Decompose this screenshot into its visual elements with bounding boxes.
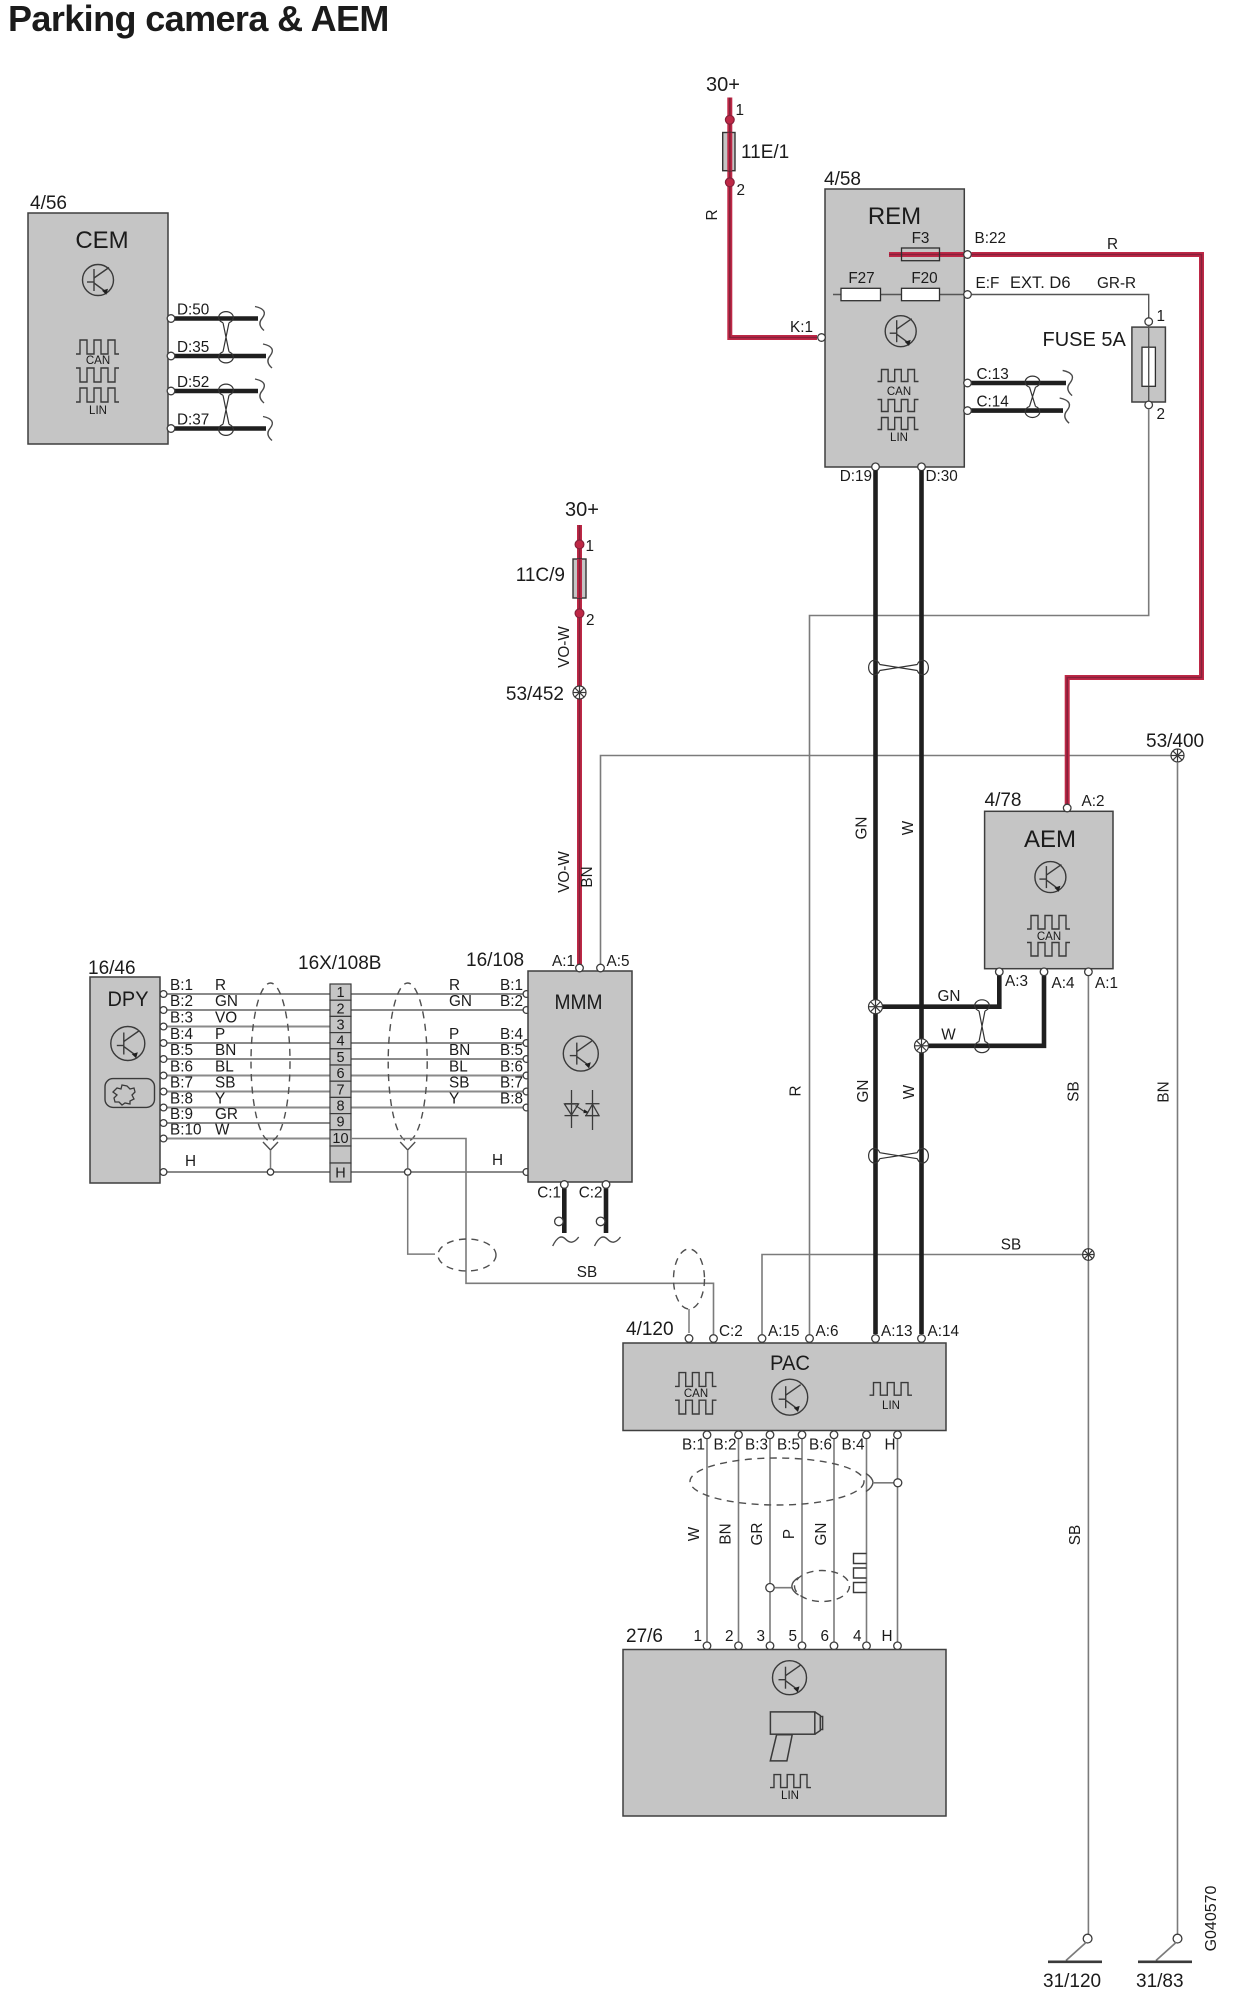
module REM 4/58 box [824, 169, 964, 467]
fuse F3 [902, 230, 940, 261]
wire W branch to AEM A:4 [922, 972, 1045, 1046]
PAC pin B:3 wire to camera pin 3 [745, 1431, 774, 1650]
svg-text:3: 3 [756, 1628, 765, 1645]
PAC pin B:2 wire to camera pin 2 [714, 1431, 743, 1650]
wire SB from PAC A:15 to SB junction [762, 1255, 1082, 1335]
svg-text:CAN: CAN [684, 1388, 708, 1400]
REM internal wire + fuse F3 feeding B:22 [889, 252, 966, 257]
wire BN from MMM A:5 to splice 53/400 [601, 756, 1172, 966]
svg-text:27/6: 27/6 [626, 1626, 663, 1647]
pulse signal symbol on wire 4 [854, 1554, 867, 1593]
wire SB from AEM A:1 to ground 31/120 [1087, 976, 1089, 1934]
twisted pair D:50/D:35 [219, 312, 234, 363]
svg-text:B:8: B:8 [170, 1091, 193, 1108]
DPY pin B:8 wire Y [160, 1091, 330, 1111]
DPY pin B:4 wire P [160, 1026, 330, 1046]
REM pin D:30 [918, 463, 926, 471]
shield (screen) DPY-16X/108B [251, 983, 290, 1175]
REM pin C:14 wire [964, 394, 1070, 424]
svg-text:4/120: 4/120 [626, 1319, 674, 1340]
CEM pin D:50 wire [167, 302, 264, 331]
PAC shield pin [685, 1335, 693, 1343]
svg-text:16/46: 16/46 [88, 958, 136, 979]
junction W [915, 1039, 929, 1053]
svg-text:B:6: B:6 [809, 1437, 832, 1454]
wire R from FUSE 5A to PAC A:6 [810, 409, 1149, 1334]
svg-text:AEM: AEM [1024, 826, 1076, 853]
svg-text:30+: 30+ [565, 499, 599, 521]
svg-text:GN: GN [938, 988, 961, 1005]
DPY pin B:7 wire SB [160, 1075, 330, 1095]
wire GR-R from E:F to FUSE 5A [972, 295, 1149, 319]
svg-text:GN: GN [854, 817, 871, 840]
svg-text:FUSE 5A: FUSE 5A [1043, 329, 1127, 351]
svg-text:BN: BN [1156, 1081, 1173, 1102]
svg-text:2: 2 [737, 182, 746, 199]
svg-text:16/108: 16/108 [466, 950, 524, 971]
svg-text:B:2: B:2 [500, 993, 523, 1010]
module PAC 4/120 box [623, 1319, 946, 1431]
wire SB to MMM B:7 [351, 1075, 530, 1095]
svg-text:5: 5 [788, 1628, 797, 1645]
svg-text:Y: Y [215, 1091, 225, 1108]
svg-text:G040570: G040570 [1203, 1885, 1220, 1951]
twisted pair GN/W branch [975, 1000, 990, 1053]
svg-text:A:6: A:6 [816, 1323, 839, 1340]
fuse 11C/9 [516, 559, 586, 598]
svg-text:W: W [686, 1526, 703, 1541]
svg-text:EXT. D6: EXT. D6 [1010, 274, 1071, 292]
svg-text:7: 7 [336, 1082, 344, 1098]
AEM CAN icon [1027, 916, 1070, 957]
DPY pin B:6 wire BL [160, 1059, 330, 1079]
connector 16X/108B [298, 953, 381, 1182]
wire R from 30+ to REM K:1 [730, 98, 817, 338]
twisted pair C:13/C:14 [1025, 376, 1040, 417]
svg-text:B:2: B:2 [170, 993, 193, 1010]
twisted pair D:52/D:37 [219, 384, 234, 435]
svg-text:R: R [704, 209, 721, 220]
shield oval on SB at MMM side [438, 1239, 496, 1271]
svg-text:H: H [884, 1437, 895, 1454]
wire W from REM D:30 to PAC A:14 [919, 471, 924, 1335]
svg-text:31/120: 31/120 [1043, 1971, 1101, 1992]
svg-text:R: R [449, 977, 460, 994]
MMM suppressor diodes icon [565, 1090, 600, 1130]
svg-text:8: 8 [336, 1099, 344, 1115]
PAC pin C:2 [710, 1335, 718, 1343]
splice node 53/452 [573, 686, 586, 699]
svg-text:C:2: C:2 [719, 1323, 743, 1340]
svg-text:A:1: A:1 [1095, 975, 1118, 992]
FUSE 5A pin 1 [1145, 318, 1153, 326]
svg-text:F3: F3 [912, 230, 930, 247]
svg-text:H: H [492, 1152, 503, 1169]
svg-text:CEM: CEM [75, 227, 128, 254]
svg-text:B:10: B:10 [170, 1122, 201, 1139]
svg-text:D:37: D:37 [177, 412, 209, 429]
svg-text:9: 9 [336, 1115, 344, 1131]
REM pin K:1 [818, 334, 826, 342]
module AEM 4/78 box [985, 790, 1114, 969]
svg-text:W: W [900, 820, 917, 835]
svg-text:GR: GR [215, 1106, 238, 1123]
svg-text:A:14: A:14 [928, 1323, 960, 1340]
module CEM 4/56 box [28, 193, 168, 444]
svg-text:1: 1 [736, 102, 745, 119]
fuse 11C/9 pin 1 [575, 540, 584, 549]
wire Y to MMM B:8 [351, 1091, 530, 1111]
svg-text:P: P [215, 1026, 225, 1043]
fuse F27 [841, 270, 881, 301]
svg-text:MMM: MMM [555, 991, 603, 1014]
wire P to MMM B:4 [351, 1026, 530, 1046]
svg-text:6: 6 [820, 1628, 829, 1645]
svg-text:VO-W: VO-W [556, 626, 573, 668]
FUSE 5A body [1043, 326, 1166, 403]
wire H to MMM [351, 1152, 530, 1175]
REM pin D:19 [872, 463, 880, 471]
AEM transistor icon [1035, 862, 1066, 893]
svg-text:C:2: C:2 [579, 1185, 603, 1202]
MMM pin C:1 stub [537, 1181, 579, 1246]
svg-text:SB: SB [1066, 1081, 1083, 1101]
svg-text:D:35: D:35 [177, 339, 209, 356]
PAC pin H wire to camera pin H [881, 1431, 901, 1650]
PAC pin A:13 [872, 1335, 880, 1343]
AEM pin A:2 [1063, 804, 1071, 812]
svg-text:BL: BL [215, 1059, 234, 1076]
shield drain wire to SB screen [408, 1176, 435, 1255]
svg-text:BN: BN [579, 866, 596, 887]
svg-text:Y: Y [449, 1091, 459, 1108]
svg-text:F27: F27 [848, 270, 874, 287]
REM pin B:22 [964, 251, 972, 259]
junction GN [869, 1000, 883, 1014]
svg-text:F20: F20 [911, 270, 937, 287]
svg-text:GN: GN [449, 993, 472, 1010]
svg-text:C:14: C:14 [977, 394, 1010, 411]
CEM pin D:52 wire [167, 374, 264, 403]
DPY pin B:10 wire W [160, 1122, 330, 1142]
svg-text:R: R [1107, 236, 1118, 253]
27/6 transistor icon [773, 1661, 807, 1695]
svg-text:A:5: A:5 [607, 953, 630, 970]
svg-text:6: 6 [336, 1066, 344, 1082]
twisted pair GN/W (upper) [869, 660, 929, 675]
svg-text:REM: REM [868, 203, 921, 230]
svg-text:B:2: B:2 [714, 1437, 737, 1454]
svg-text:SB: SB [215, 1075, 235, 1092]
DPY display icon [105, 1079, 155, 1108]
svg-text:R: R [215, 977, 226, 994]
ground 31/120 [1043, 1934, 1102, 1992]
fuse 11C/9 pin 2 [575, 609, 584, 618]
svg-text:A:15: A:15 [768, 1323, 799, 1340]
svg-text:B:7: B:7 [170, 1075, 193, 1092]
DPY pin B:2 wire GN [160, 993, 330, 1013]
wire GN from REM D:19 to PAC A:13 [873, 471, 878, 1335]
svg-text:B:1: B:1 [682, 1437, 705, 1454]
svg-text:B:6: B:6 [500, 1059, 523, 1076]
svg-text:B:5: B:5 [500, 1042, 523, 1059]
svg-text:2: 2 [1157, 406, 1166, 423]
REM CAN icon [878, 370, 919, 412]
AEM pin A:3 [996, 968, 1004, 976]
svg-text:2: 2 [586, 612, 595, 629]
svg-text:H: H [881, 1628, 892, 1645]
svg-text:Parking camera & AEM: Parking camera & AEM [8, 0, 389, 39]
DPY pin B:9 wire GR [160, 1106, 330, 1126]
svg-text:1: 1 [693, 1628, 702, 1645]
svg-text:11E/1: 11E/1 [741, 142, 789, 163]
fuse 11E/1 pin 1 [725, 115, 734, 124]
MMM pin A:1 [576, 964, 584, 972]
svg-text:P: P [449, 1026, 459, 1043]
svg-text:GN: GN [813, 1523, 830, 1546]
svg-text:D:52: D:52 [177, 374, 209, 391]
wire SB from 16X/108B pin 10 to PAC C:2 [351, 1139, 714, 1335]
svg-text:SB: SB [449, 1075, 469, 1092]
REM internal line through fuses F27/F20 to E:F [833, 294, 966, 296]
module DPY 16/46 box [88, 958, 160, 1183]
svg-text:H: H [335, 1166, 345, 1182]
DPY pin B:3 wire VO [160, 1010, 330, 1030]
svg-text:2: 2 [725, 1628, 734, 1645]
svg-text:W: W [215, 1122, 230, 1139]
CEM LIN icon [76, 388, 119, 417]
wire R to MMM B:1 [351, 977, 530, 997]
PAC pin A:15 [758, 1335, 766, 1343]
svg-text:E:F: E:F [976, 275, 1000, 292]
svg-text:BN: BN [449, 1042, 470, 1059]
svg-text:H: H [185, 1153, 196, 1170]
svg-text:11C/9: 11C/9 [516, 565, 565, 586]
svg-text:K:1: K:1 [790, 319, 813, 336]
svg-text:B:5: B:5 [777, 1437, 800, 1454]
svg-text:30+: 30+ [706, 74, 740, 96]
REM pin C:13 wire [964, 366, 1073, 396]
PAC pin B:4 wire to camera pin 4 [842, 1431, 871, 1650]
PAC pin B:1 wire to camera pin 1 [682, 1431, 711, 1650]
svg-text:A:1: A:1 [552, 953, 575, 970]
wire BN from 53/400 down to ground 31/83 [1177, 762, 1179, 1934]
svg-text:R: R [788, 1085, 805, 1096]
svg-text:SB: SB [1067, 1525, 1084, 1545]
svg-text:GN: GN [855, 1080, 872, 1103]
shield oval on SB at PAC side [674, 1249, 705, 1333]
svg-text:B:9: B:9 [170, 1106, 193, 1123]
fuse 11E/1 pin 2 [725, 178, 734, 187]
27/6 LIN icon [770, 1775, 811, 1802]
MMM pin A:5 [597, 964, 605, 972]
PAC CAN icon [675, 1373, 717, 1414]
svg-text:C:1: C:1 [537, 1185, 561, 1202]
splice node 53/400 [1171, 749, 1184, 762]
svg-text:SB: SB [1001, 1237, 1021, 1254]
PAC LIN icon [870, 1383, 913, 1412]
svg-text:B:4: B:4 [842, 1437, 865, 1454]
svg-text:P: P [781, 1529, 798, 1539]
svg-text:GR-R: GR-R [1097, 275, 1136, 292]
wire BN to MMM B:5 [351, 1042, 530, 1062]
DPY pin B:1 wire R [160, 977, 330, 997]
svg-text:BL: BL [449, 1059, 468, 1076]
wire BL to MMM B:6 [351, 1059, 530, 1079]
wire GN to MMM B:2 [351, 993, 530, 1013]
shield (screen) 16X/108B-MMM [388, 983, 427, 1175]
svg-text:16X/108B: 16X/108B [298, 953, 381, 974]
svg-text:VO-W: VO-W [556, 851, 573, 893]
svg-text:4/58: 4/58 [824, 169, 861, 190]
svg-text:BN: BN [215, 1042, 236, 1059]
svg-text:A:4: A:4 [1052, 975, 1075, 992]
svg-text:3: 3 [336, 1018, 344, 1034]
shield oval on wires 5/6 [766, 1571, 850, 1602]
ground 31/83 [1136, 1934, 1192, 1992]
svg-text:CAN: CAN [86, 355, 110, 367]
junction SB [1083, 1249, 1095, 1261]
wire VO-W from 30+ to MMM A:1 [577, 525, 582, 965]
wire GN branch to AEM A:3 [876, 972, 1000, 1007]
AEM pin A:4 [1040, 968, 1048, 976]
svg-text:D:30: D:30 [926, 468, 958, 485]
fuse F20 [902, 270, 940, 301]
svg-text:B:3: B:3 [170, 1010, 193, 1027]
svg-text:4: 4 [336, 1034, 344, 1050]
svg-text:PAC: PAC [770, 1352, 810, 1375]
svg-text:B:4: B:4 [170, 1026, 193, 1043]
svg-text:A:2: A:2 [1082, 793, 1105, 810]
REM transistor icon [885, 316, 916, 347]
PAC transistor icon [772, 1379, 808, 1415]
REM LIN icon [878, 418, 919, 445]
svg-text:CAN: CAN [887, 386, 911, 398]
svg-text:LIN: LIN [781, 1790, 799, 1802]
27/6 camera icon [770, 1712, 822, 1761]
MMM pin C:2 stub [579, 1181, 621, 1246]
DPY pin B:5 wire BN [160, 1042, 330, 1062]
svg-text:W: W [901, 1084, 918, 1099]
FUSE 5A pin 2 [1145, 401, 1153, 409]
svg-text:LIN: LIN [89, 405, 107, 417]
svg-text:GN: GN [215, 993, 238, 1010]
svg-text:B:4: B:4 [500, 1026, 523, 1043]
svg-text:B:6: B:6 [170, 1059, 193, 1076]
svg-text:B:7: B:7 [500, 1075, 523, 1092]
PAC pin B:5 wire to camera pin 5 [777, 1431, 806, 1650]
svg-text:2: 2 [336, 1001, 344, 1017]
PAC pin A:14 [918, 1335, 926, 1343]
AEM pin A:1 [1085, 968, 1093, 976]
svg-text:B:1: B:1 [170, 977, 193, 994]
svg-text:D:50: D:50 [177, 302, 209, 319]
svg-text:5: 5 [336, 1050, 344, 1066]
svg-text:SB: SB [577, 1264, 597, 1281]
DPY transistor icon [111, 1027, 145, 1061]
svg-text:4/78: 4/78 [985, 790, 1022, 811]
svg-text:10: 10 [332, 1131, 348, 1147]
module MMM 16/108 box [466, 950, 632, 1182]
svg-text:B:3: B:3 [745, 1437, 768, 1454]
svg-text:31/83: 31/83 [1136, 1971, 1184, 1992]
svg-text:GR: GR [749, 1523, 766, 1546]
svg-text:LIN: LIN [890, 432, 908, 444]
module 27/6 (parking camera) box [623, 1626, 946, 1816]
svg-text:B:5: B:5 [170, 1042, 193, 1059]
wire R from REM B:22 to AEM A:2 [972, 255, 1202, 806]
CEM pin D:35 wire [167, 339, 272, 368]
svg-text:B:22: B:22 [975, 230, 1006, 247]
svg-text:B:1: B:1 [500, 977, 523, 994]
svg-text:CAN: CAN [1037, 931, 1061, 943]
svg-text:53/452: 53/452 [506, 684, 564, 705]
CEM pin D:37 wire [167, 412, 272, 441]
shield ellipse under PAC [690, 1458, 902, 1505]
CEM CAN icon [76, 340, 119, 382]
svg-text:4: 4 [853, 1628, 862, 1645]
DPY pin H wire [160, 1153, 330, 1175]
svg-text:C:13: C:13 [977, 366, 1009, 383]
svg-text:B:8: B:8 [500, 1091, 523, 1108]
svg-text:53/400: 53/400 [1146, 731, 1204, 752]
MMM transistor icon [563, 1036, 598, 1071]
twisted pair GN/W (lower) [869, 1148, 929, 1163]
svg-text:W: W [941, 1027, 956, 1044]
svg-text:A:13: A:13 [881, 1323, 912, 1340]
svg-text:D:19: D:19 [840, 468, 872, 485]
REM pin E:F [964, 291, 972, 299]
svg-text:1: 1 [1157, 308, 1166, 325]
svg-text:DPY: DPY [108, 988, 149, 1011]
svg-text:1: 1 [586, 538, 595, 555]
svg-text:4/56: 4/56 [30, 193, 67, 214]
PAC pin B:6 wire to camera pin 6 [809, 1431, 838, 1650]
fuse 11E/1 [723, 133, 790, 171]
CEM transistor icon [83, 265, 114, 296]
PAC pin A:6 [806, 1335, 814, 1343]
svg-text:BN: BN [718, 1523, 735, 1544]
svg-text:1: 1 [336, 985, 344, 1001]
svg-text:LIN: LIN [882, 1400, 900, 1412]
svg-text:A:3: A:3 [1005, 973, 1028, 990]
svg-text:VO: VO [215, 1010, 237, 1027]
